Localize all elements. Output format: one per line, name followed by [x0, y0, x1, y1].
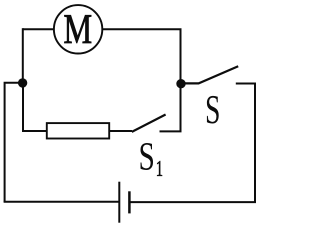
battery long plate — [118, 182, 120, 223]
wire inner left to resistor — [23, 83, 47, 131]
wire top rail left — [23, 28, 54, 30]
wire left upper vertical — [22, 28, 24, 83]
switch S1 blade — [132, 115, 166, 132]
node junction right dot — [176, 79, 185, 88]
node junction left dot — [18, 78, 27, 87]
switch S1 label subscript 1 — [157, 161, 162, 176]
switch S1 label S — [140, 143, 153, 170]
wire outer left branch — [5, 83, 23, 202]
switch S label — [207, 96, 219, 124]
switch S1 fixed contact and wire up to right vertical — [160, 84, 181, 132]
battery short plate — [128, 191, 131, 213]
switch S fixed contact and right vertical — [236, 84, 255, 203]
motor U1 circle — [54, 5, 102, 53]
wire resistor to switch S1 — [109, 130, 132, 132]
wire bottom rail left — [4, 201, 120, 203]
wire bottom rail right — [129, 201, 256, 203]
resistor R — [47, 123, 109, 138]
wire top rail right — [102, 29, 180, 83]
motor label M — [64, 15, 91, 43]
switch S pivot stub and blade — [181, 66, 238, 83]
